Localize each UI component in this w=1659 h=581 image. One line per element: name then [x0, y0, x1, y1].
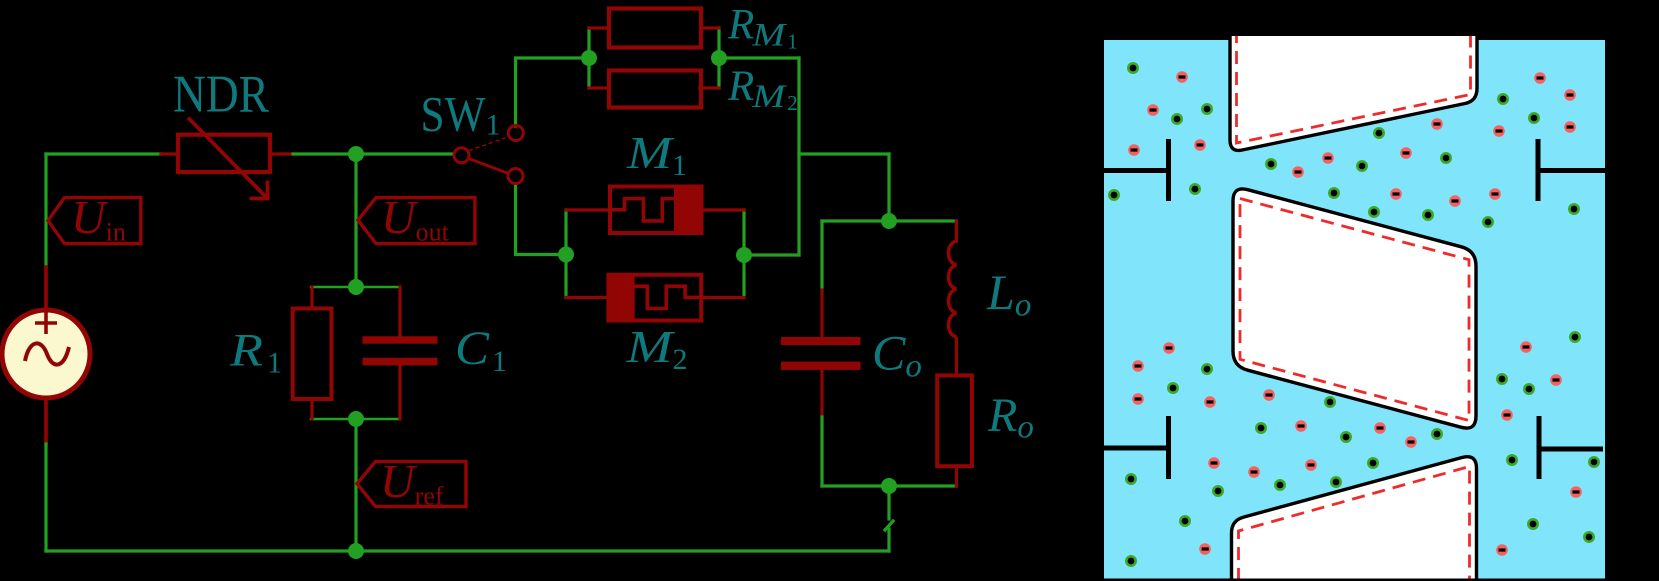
- wire M right vertical: [742, 210, 745, 298]
- wire RM node to corner: [719, 56, 799, 59]
- tag Uout: [358, 192, 475, 247]
- anion: [1208, 457, 1220, 469]
- svg-text:R1: R1: [229, 324, 282, 379]
- anion: [1128, 144, 1140, 156]
- anion: [1305, 459, 1317, 471]
- wire gap slash: [885, 521, 893, 530]
- node R1C1 bottom: [348, 411, 364, 427]
- anion: [1204, 396, 1216, 408]
- anion: [1132, 360, 1144, 372]
- wire RM1 right stub: [701, 26, 719, 29]
- wire M2 left stub: [566, 296, 608, 299]
- wire Co top green: [820, 221, 823, 290]
- cation: [1265, 158, 1277, 170]
- anion: [1263, 389, 1275, 401]
- wire C1 top stub: [398, 287, 401, 337]
- tag Uin: [48, 192, 141, 247]
- wire M2 right stub: [701, 296, 744, 299]
- channel background: [1104, 40, 1605, 579]
- cation: [1569, 331, 1581, 343]
- membrane top trapezoid dashed: [1237, 30, 1471, 143]
- cation: [1328, 187, 1340, 199]
- electrode bottom right: [1539, 416, 1603, 479]
- cation: [1255, 422, 1267, 434]
- wire output top rail: [822, 219, 956, 222]
- membrane top trapezoid: [1230, 30, 1477, 150]
- resistor Ro: [937, 375, 972, 466]
- svg-text:SW1: SW1: [421, 86, 501, 142]
- wire Ro bottom stub: [955, 466, 958, 486]
- wire top left horizontal: [46, 152, 161, 155]
- wire output bottom rail: [822, 484, 956, 487]
- cation: [1373, 127, 1385, 139]
- cation: [1496, 373, 1508, 385]
- cation: [1482, 216, 1494, 228]
- wire NDR left stub: [161, 152, 178, 155]
- anion: [1163, 342, 1175, 354]
- anion: [1400, 147, 1412, 159]
- anion: [1520, 341, 1532, 353]
- svg-text:RM1: RM1: [727, 2, 798, 54]
- wire R1 top stub: [310, 287, 313, 309]
- anion: [1493, 125, 1505, 137]
- anion: [1194, 139, 1206, 151]
- node M left: [558, 247, 574, 263]
- cation: [1127, 62, 1139, 74]
- cation: [1568, 203, 1580, 215]
- wire switch top branch: [516, 58, 590, 126]
- capacitor C1: [363, 336, 438, 365]
- anion: [1176, 71, 1188, 83]
- cation: [1189, 183, 1201, 195]
- cation: [1528, 112, 1540, 124]
- wire Co bottom green: [820, 417, 823, 486]
- svg-text:NDR: NDR: [173, 66, 270, 124]
- cation: [1523, 383, 1535, 395]
- wire RM1 left stub: [589, 26, 609, 29]
- anion: [1374, 422, 1386, 434]
- wire Lo top stub: [955, 221, 958, 241]
- cation: [1125, 555, 1137, 567]
- wire R1C1 top rail: [311, 286, 400, 288]
- capacitor Co: [781, 337, 861, 370]
- anion: [1534, 72, 1546, 84]
- node junction A: [348, 146, 364, 162]
- svg-text:Ro: Ro: [987, 389, 1034, 446]
- wire M1 left stub: [566, 208, 610, 211]
- membrane middle trapezoid dashed: [1240, 199, 1469, 421]
- anion: [1496, 544, 1508, 556]
- svg-text:Co: Co: [872, 325, 922, 385]
- wire output top vertical: [887, 154, 890, 221]
- cation: [1506, 454, 1518, 466]
- cation: [1212, 485, 1224, 497]
- resistor RM1: [609, 9, 701, 48]
- cation: [1527, 518, 1539, 530]
- svg-text:Uref: Uref: [380, 456, 444, 511]
- anion: [1390, 188, 1402, 200]
- cation: [1274, 479, 1286, 491]
- membrane bottom trapezoid dashed: [1239, 467, 1470, 581]
- wire RM2 left stub: [589, 86, 609, 89]
- anion: [1248, 466, 1260, 478]
- membrane middle trapezoid: [1233, 189, 1476, 428]
- wire NDR right stub: [270, 152, 293, 155]
- wire R1 bottom stub: [310, 399, 313, 419]
- node M right: [736, 247, 752, 263]
- wire RM right vertical: [717, 28, 720, 88]
- wire mid vertical lower: [354, 419, 357, 551]
- tag Uref: [357, 456, 466, 511]
- cation: [1171, 113, 1183, 125]
- node RM right: [711, 50, 727, 66]
- wire NDR to switch: [293, 152, 453, 155]
- svg-text:RM2: RM2: [727, 63, 798, 115]
- wire output down segment: [887, 486, 890, 519]
- anion: [1564, 89, 1576, 101]
- cation: [1179, 515, 1191, 527]
- svg-text:M1: M1: [626, 127, 687, 182]
- node output top: [881, 213, 897, 229]
- wire y154 to output: [799, 152, 889, 155]
- memristor M2: [608, 273, 701, 323]
- anion: [1132, 393, 1144, 405]
- wire mid vertical upper: [354, 154, 357, 287]
- wire Lo bottom stub: [955, 337, 958, 375]
- svg-text:Lo: Lo: [986, 264, 1031, 324]
- resistor NDR: [178, 118, 270, 199]
- wire RM2 right stub: [700, 86, 719, 89]
- anion: [1570, 486, 1582, 498]
- node output bottom: [881, 478, 897, 494]
- inductor Lo: [949, 241, 957, 337]
- anion: [1292, 166, 1304, 178]
- wire Co top red: [820, 290, 823, 337]
- cation: [1201, 363, 1213, 375]
- wire source top stub: [44, 267, 48, 311]
- cation: [1108, 189, 1120, 201]
- memristor M1: [610, 185, 702, 236]
- cation: [1367, 457, 1379, 469]
- cation: [1340, 431, 1352, 443]
- wire left vertical green bottom: [44, 444, 47, 551]
- electrode top left: [1104, 139, 1169, 201]
- cation: [1368, 206, 1380, 218]
- wire switch bottom branch: [516, 184, 567, 255]
- anion: [1147, 104, 1159, 116]
- anion: [1405, 436, 1417, 448]
- wire output down segment2: [887, 529, 890, 551]
- anion: [1199, 543, 1211, 555]
- anion: [1501, 409, 1513, 421]
- anion: [1449, 195, 1461, 207]
- node R1C1 top: [348, 279, 364, 295]
- anion: [1489, 188, 1501, 200]
- wire M left vertical: [564, 210, 567, 298]
- cation: [1330, 476, 1342, 488]
- anion: [1431, 118, 1443, 130]
- svg-text:C1: C1: [455, 322, 507, 378]
- cation: [1324, 396, 1336, 408]
- svg-text:Uin: Uin: [71, 192, 126, 247]
- nanofluidic channel panel: [1104, 30, 1605, 581]
- cation: [1125, 473, 1137, 485]
- cation: [1422, 209, 1434, 221]
- anion: [1550, 374, 1562, 386]
- wire Co bottom red: [820, 370, 823, 417]
- anion: [1564, 121, 1576, 133]
- node bottom rail: [348, 543, 364, 559]
- membrane bottom trapezoid: [1232, 457, 1477, 581]
- resistor R1: [293, 309, 332, 400]
- cation: [1588, 456, 1600, 468]
- wire x799 vertical: [797, 58, 800, 255]
- svg-text:M2: M2: [625, 321, 687, 376]
- cation: [1356, 160, 1368, 172]
- electrode top right: [1538, 139, 1605, 201]
- cation: [1497, 93, 1509, 105]
- wire bottom rail: [46, 549, 889, 552]
- wire left vertical green top: [44, 154, 47, 267]
- cation: [1431, 428, 1443, 440]
- wire C1 bottom stub: [398, 365, 401, 419]
- voltage source V1: [2, 310, 90, 398]
- cation: [1167, 382, 1179, 394]
- cation: [1440, 152, 1452, 164]
- cation: [1201, 103, 1213, 115]
- svg-text:Uout: Uout: [381, 192, 450, 247]
- electrode bottom left: [1104, 416, 1169, 479]
- node RM left: [581, 50, 597, 66]
- wire source bottom stub: [44, 397, 48, 444]
- anion: [1322, 152, 1334, 164]
- wire RM left vertical: [587, 28, 590, 88]
- wire R1C1 bottom rail: [311, 418, 400, 420]
- resistor RM2: [609, 71, 701, 108]
- anion: [1295, 420, 1307, 432]
- wire M1 right stub: [702, 208, 744, 211]
- cation: [1583, 531, 1595, 543]
- switch SW1: [454, 126, 523, 184]
- wire M node to x799: [744, 253, 799, 256]
